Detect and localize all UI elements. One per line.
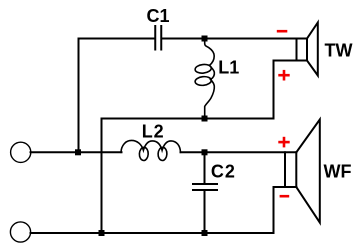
wire L1 return [102,61,308,234]
junction node bottom rail C2 [202,230,208,236]
wire main rail right of L2 [181,151,297,153]
svg-text:C2: C2 [211,161,236,181]
svg-text:TW: TW [325,41,353,61]
input terminal bottom [10,222,30,242]
woofer WF body [284,152,286,187]
tweeter TW body [296,39,298,61]
junction node bottom rail left [99,230,105,236]
junction node input/C1 branch [75,149,81,155]
svg-text:WF: WF [324,162,352,182]
wire bottom rail [31,232,274,234]
polarity minus TW [277,30,288,33]
inductor L2 [121,140,181,152]
svg-text:L1: L1 [218,58,239,78]
input terminal top [11,142,31,162]
junction node L2/C2/WF [202,149,208,155]
capacitor C2 wire top [204,152,206,184]
wire woofer return [274,187,297,233]
wire top rail right of C1 [162,38,307,40]
wire main rail [31,151,122,153]
polarity plus WF [278,141,289,144]
junction node L1 return [202,116,208,122]
capacitor C2 wire bottom [204,190,206,233]
tweeter TW cone [307,23,318,76]
capacitor C1 plates [154,26,156,50]
capacitor C2 plates [193,183,217,185]
wire top rail left of C1 [79,39,155,153]
polarity minus WF [280,195,290,198]
svg-text:C1: C1 [147,6,170,26]
woofer WF cone [296,120,320,223]
inductor L1 [205,39,215,116]
svg-text:L2: L2 [142,121,165,141]
polarity plus TW [278,74,289,77]
junction node C1/L1/TW [202,36,208,42]
